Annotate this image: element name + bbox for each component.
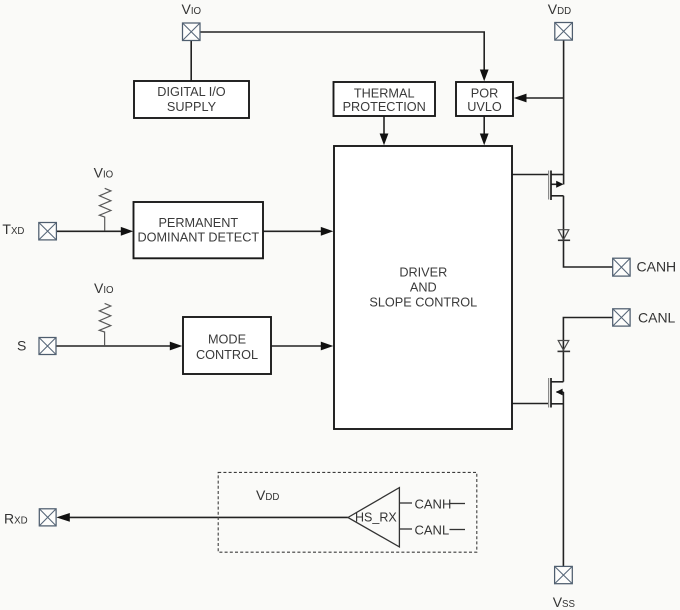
svg-text:S: S — [17, 338, 26, 354]
svg-text:CANH: CANH — [637, 259, 677, 275]
svg-text:SUPPLY: SUPPLY — [167, 100, 217, 114]
svg-text:PERMANENT: PERMANENT — [158, 216, 238, 230]
svg-text:CONTROL: CONTROL — [196, 348, 258, 362]
svg-text:UVLO: UVLO — [467, 100, 502, 114]
svg-text:DRIVER: DRIVER — [399, 266, 447, 280]
svg-text:DIGITAL I/O: DIGITAL I/O — [157, 85, 226, 99]
svg-text:THERMAL: THERMAL — [354, 87, 415, 101]
svg-text:AND: AND — [410, 281, 437, 295]
svg-text:CANH: CANH — [415, 497, 452, 512]
svg-text:POR: POR — [471, 87, 499, 101]
svg-text:CANL: CANL — [638, 310, 676, 326]
svg-text:CANL: CANL — [415, 523, 450, 538]
svg-text:HS_RX: HS_RX — [355, 511, 397, 525]
svg-text:MODE: MODE — [208, 333, 246, 347]
svg-text:PROTECTION: PROTECTION — [343, 100, 426, 114]
svg-text:SLOPE CONTROL: SLOPE CONTROL — [369, 296, 477, 310]
svg-text:DOMINANT DETECT: DOMINANT DETECT — [137, 230, 259, 244]
